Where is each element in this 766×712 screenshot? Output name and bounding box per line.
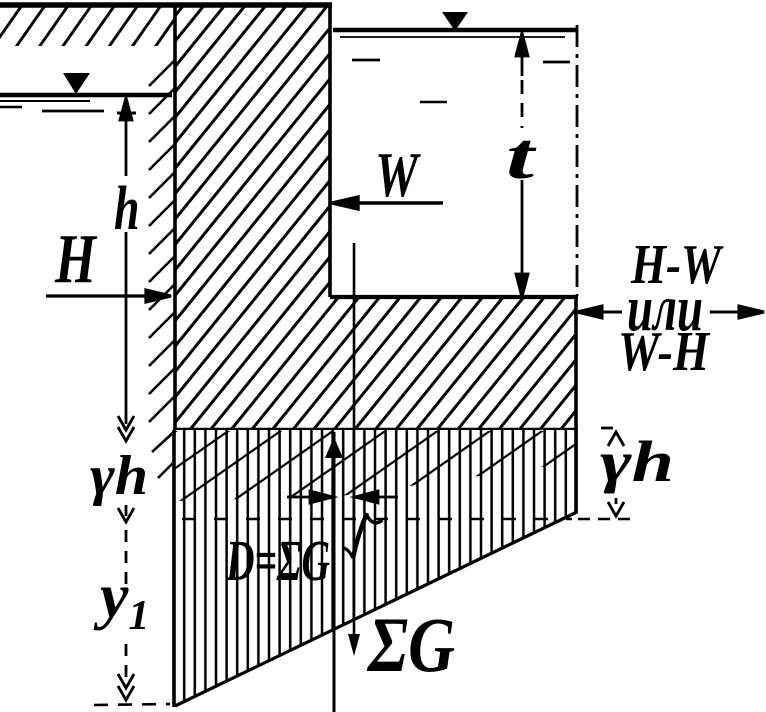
svg-text:t: t: [506, 120, 537, 193]
dimension h: arrow and line: [117, 98, 136, 424]
force arrow H: [46, 290, 171, 302]
eccentricity r arrows: [287, 491, 398, 503]
svg-text:γh: γh: [90, 445, 148, 507]
ground surface line: [0, 2, 332, 8]
label h: [114, 173, 140, 242]
right water dashes: [352, 59, 380, 62]
arrow right: [710, 306, 764, 318]
dimension t: [516, 33, 528, 297]
pressure diagram right edge: [574, 430, 578, 513]
svg-text:W-H: W-H: [618, 321, 710, 383]
base slab right edge: [574, 297, 578, 431]
svg-text:W: W: [375, 139, 421, 210]
svg-text:D=ΣG: D=ΣG: [225, 528, 330, 593]
label r: [344, 513, 382, 558]
base slab bottom edge: [174, 428, 578, 433]
right water level marker: [442, 12, 468, 31]
left water surface line: [0, 93, 172, 97]
dashed level line gamma-h: [182, 518, 572, 520]
svg-text:γh: γh: [600, 429, 674, 494]
pressure diagram sloped bottom edge: [175, 512, 577, 706]
left water dashes: [0, 106, 22, 109]
pressure diagram vertical hatching: [174, 430, 578, 706]
svg-text:h: h: [114, 173, 140, 242]
pressure diagram diagonal overlay: [175, 431, 577, 501]
wall left edge: [173, 3, 177, 431]
right dimension gamma-h: [601, 428, 624, 516]
pressure diagram left edge: [172, 430, 176, 707]
right water surface line: [333, 28, 578, 33]
soil hatching left of wall: [0, 6, 174, 46]
edge ticks along wall left face: [149, 60, 176, 478]
wall right edge: [328, 3, 332, 297]
dash-dot boundary line right of wall: [576, 25, 579, 296]
base slab top edge: [330, 295, 578, 299]
wall and base slab body hatching: [175, 4, 577, 430]
arrow left to wall: [577, 306, 622, 318]
bottom dashes at left corner: [94, 704, 170, 705]
resultant D line with up arrow: [333, 432, 336, 712]
svg-text:H: H: [54, 221, 98, 298]
left dimension gamma-h / y1: [118, 416, 134, 700]
force SigmaG line with down arrow: [353, 243, 356, 645]
left water level marker: [63, 73, 90, 94]
force arrow W: [332, 197, 443, 209]
svg-text:ΣG: ΣG: [366, 601, 455, 688]
